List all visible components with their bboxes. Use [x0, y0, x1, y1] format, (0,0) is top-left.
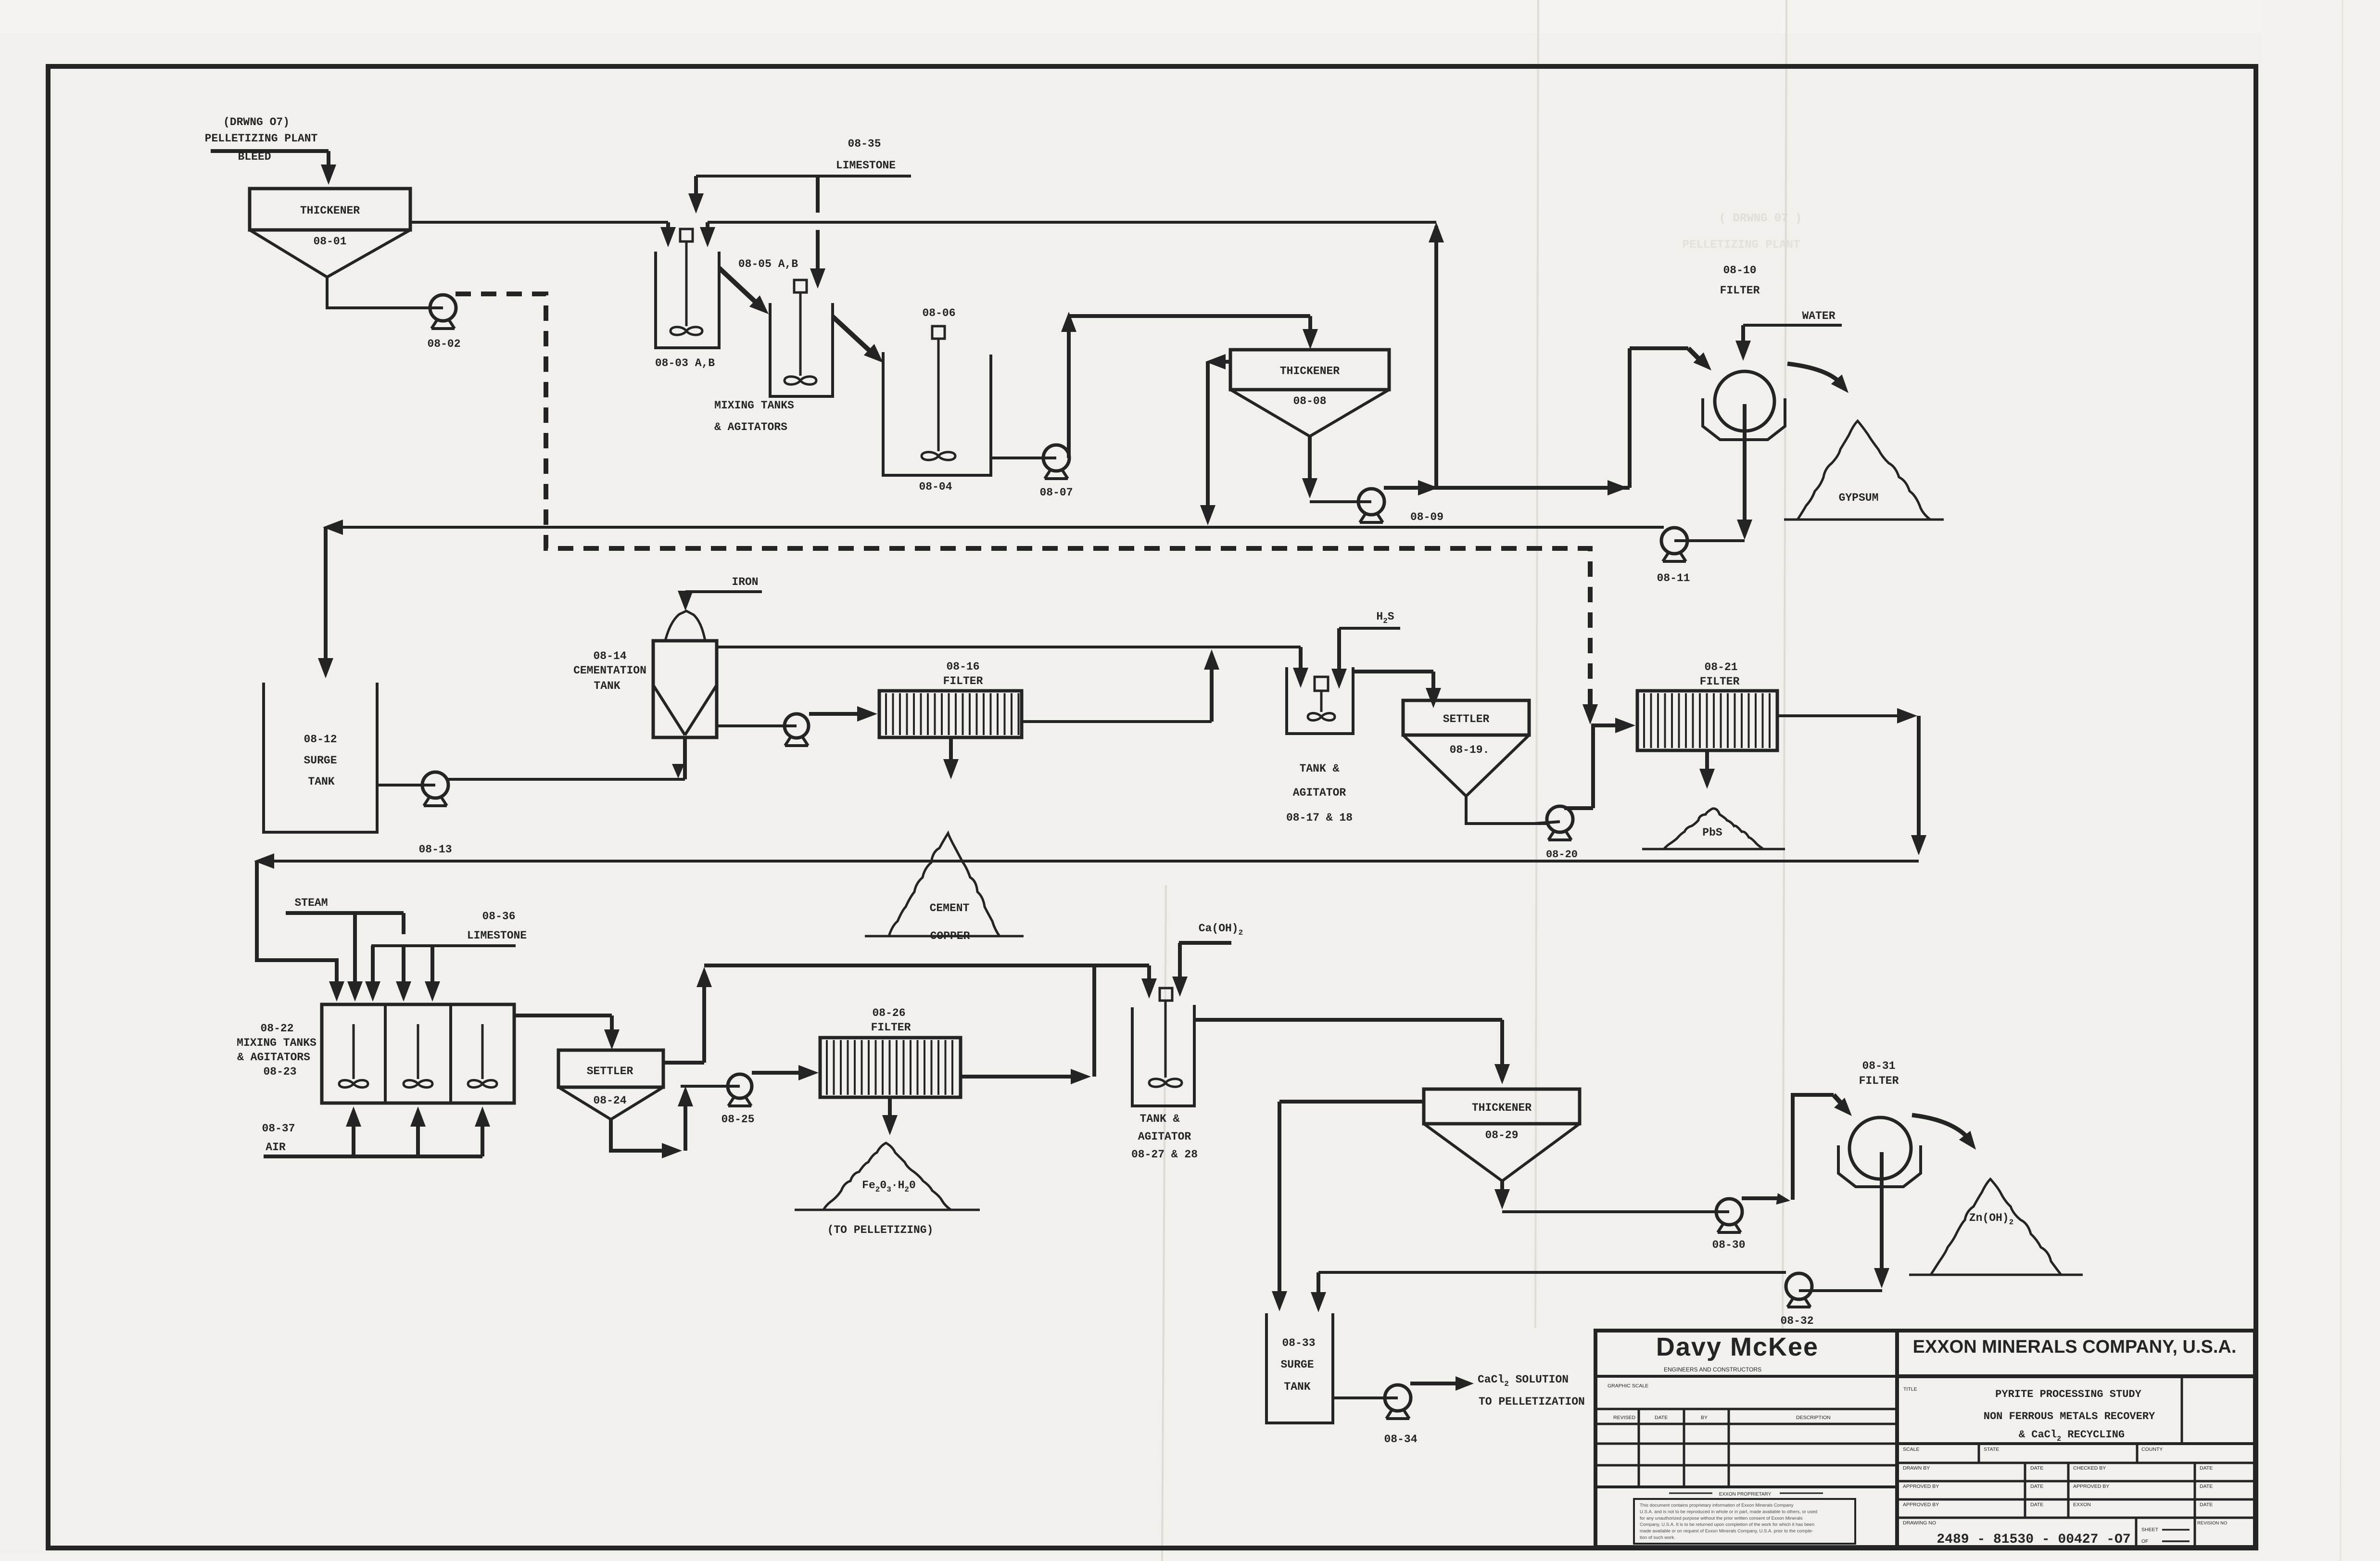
label CaCl2 solution to pelletization: [1478, 1373, 1585, 1408]
svg-text:EXXON: EXXON: [2073, 1502, 2091, 1508]
agitator 08-06 of tank 08-04: [922, 326, 955, 460]
line: pump 08-15 discharge into filter 08-16: [809, 706, 877, 722]
svg-text:08-17 & 18: 08-17 & 18: [1286, 812, 1353, 824]
svg-text:08-34: 08-34: [1384, 1433, 1417, 1446]
label PbS: [1702, 826, 1722, 839]
svg-text:PELLETIZING PLANT: PELLETIZING PLANT: [1683, 239, 1800, 252]
svg-text:08-03 A,B: 08-03 A,B: [655, 357, 715, 369]
svg-text:made available or on request o: made available or on request of Exxon Mi…: [1640, 1529, 1813, 1534]
arrow: tank 08-03 overflow to tank 08-05: [719, 268, 769, 314]
line: pump 08-20 discharge riser to filter 08-21: [1564, 718, 1635, 808]
line: steam branch to tank 1: [347, 913, 363, 1002]
svg-text:EXXON PROPRIETARY: EXXON PROPRIETARY: [1719, 1492, 1772, 1497]
mixing tank 08-03 A,B: [656, 252, 719, 348]
line: H2S feed into tank 08-17: [1331, 628, 1400, 689]
line: settler 08-24 underflow to pump 08-25: [611, 1086, 729, 1158]
label 08-13: [418, 843, 452, 856]
svg-text:THICKENER: THICKENER: [1472, 1102, 1532, 1114]
label Ca(OH)2 feed: [1199, 922, 1243, 937]
svg-text:AGITATOR: AGITATOR: [1138, 1130, 1191, 1143]
mixing tank 08-04: [883, 352, 991, 475]
svg-text:SURGE: SURGE: [304, 754, 337, 767]
agitator of tank 08-27: [1149, 988, 1182, 1087]
svg-text:DRAWING NO: DRAWING NO: [1903, 1520, 1936, 1526]
svg-text:for any unauthorized purpose w: for any unauthorized purpose without the…: [1640, 1516, 1803, 1521]
svg-text:FILTER: FILTER: [1859, 1075, 1899, 1087]
svg-text:08-31: 08-31: [1862, 1060, 1895, 1072]
svg-text:08-21: 08-21: [1704, 661, 1737, 673]
svg-text:08-36: 08-36: [482, 910, 515, 923]
svg-text:(TO PELLETIZING): (TO PELLETIZING): [827, 1224, 934, 1236]
line: mixing tanks outlet to settler 08-24: [514, 1015, 620, 1050]
svg-text:SCALE: SCALE: [1903, 1447, 1919, 1452]
svg-text:STATE: STATE: [1984, 1447, 1999, 1452]
label 08-06: [922, 307, 955, 319]
rotary drum filter 08-10: [1703, 371, 1785, 440]
label tank & agitator 08-27 & 28: [1131, 1113, 1198, 1161]
svg-text:TITLE: TITLE: [1903, 1386, 1917, 1392]
svg-text:08-11: 08-11: [1657, 572, 1690, 584]
line: pump 08-25 discharge into filter 08-26: [752, 1065, 819, 1080]
svg-text:08-32: 08-32: [1780, 1315, 1813, 1327]
line: pump 08-32 discharge to surge tank 08-33: [1311, 1272, 1786, 1312]
svg-text:CEMENT: CEMENT: [930, 902, 970, 914]
svg-text:08-07: 08-07: [1039, 486, 1073, 499]
agitator of tank 08-17: [1308, 677, 1335, 721]
line: steam header: [286, 913, 404, 934]
line: iron feed into cementation tank: [678, 591, 762, 611]
mixing tanks 08-22 08-23: [322, 1004, 514, 1103]
label 08-22 mixing tanks & agitators 08-23: [237, 1022, 316, 1078]
line: bleed feed into thickener 08-01: [211, 151, 336, 185]
svg-text:08-01: 08-01: [313, 235, 346, 248]
svg-text:DATE: DATE: [2030, 1484, 2043, 1489]
label 08-32: [1780, 1315, 1813, 1327]
mixing tank 08-05 A,B: [770, 303, 833, 396]
svg-text:STEAM: STEAM: [294, 897, 328, 909]
svg-text:08-27 & 28: 08-27 & 28: [1131, 1148, 1198, 1161]
line: long return line to mixing tanks 08-22: [254, 853, 1919, 1002]
line: filter 08-21 filtrate to return line: [1777, 708, 1926, 855]
label 08-11: [1657, 572, 1690, 584]
svg-text:DATE: DATE: [2030, 1502, 2043, 1508]
line: limestone 08-35 header: [696, 175, 911, 178]
label 08-05 A,B: [738, 258, 798, 270]
svg-text:TANK: TANK: [1284, 1381, 1310, 1393]
svg-text:2489 - 81530 - 00427 -O7: 2489 - 81530 - 00427 -O7: [1937, 1532, 2130, 1547]
svg-text:LIMESTONE: LIMESTONE: [836, 159, 896, 172]
pump 08-20: [1534, 806, 1573, 840]
label 08-09: [1410, 511, 1443, 523]
svg-text:AGITATOR: AGITATOR: [1293, 787, 1346, 799]
svg-text:08-20: 08-20: [1546, 849, 1578, 861]
line: cementation tank outlet to pump 08-15: [717, 724, 785, 727]
svg-text:& AGITATORS: & AGITATORS: [714, 421, 787, 433]
agitator 2 of 08-22: [404, 1024, 432, 1088]
dashed line: pump 08-02 bleed to filter 08-21 inlet: [456, 294, 1598, 724]
svg-text:DATE: DATE: [2200, 1465, 2213, 1471]
label 08-21 filter: [1700, 661, 1740, 688]
line: pump 08-30 discharge to filter 08-31: [1742, 1095, 1852, 1205]
svg-text:08-12: 08-12: [304, 733, 337, 746]
pump 08-32: [1786, 1273, 1824, 1307]
agitator 3 of 08-22: [468, 1024, 497, 1088]
svg-text:FILTER: FILTER: [943, 675, 983, 687]
line: pump 08-09 discharge to filter 08-10: [1384, 348, 1711, 495]
line: pump 08-34 discharge to pelletization: [1410, 1376, 1474, 1391]
svg-text:GYPSUM: GYPSUM: [1839, 492, 1879, 504]
line: limestone branch to tank 2: [425, 946, 440, 1002]
svg-text:08-24: 08-24: [593, 1094, 626, 1107]
PbS pile: [1642, 809, 1785, 849]
line: steam branch to tank 2: [396, 946, 411, 1002]
line: transfer line to tank 08-27: [704, 965, 1157, 999]
svg-text:BY: BY: [1701, 1415, 1708, 1421]
svg-text:THICKENER: THICKENER: [1280, 365, 1340, 378]
svg-text:08-25: 08-25: [721, 1113, 754, 1126]
thickener 08-29: [1424, 1089, 1580, 1181]
line: thickener 08-01 underflow to pump 08-02: [327, 277, 431, 308]
pump 08-13: [377, 772, 448, 806]
agitator of tank 08-05: [785, 280, 816, 384]
svg-text:FILTER: FILTER: [1700, 675, 1740, 688]
svg-text:DATE: DATE: [2200, 1502, 2213, 1508]
arrow: filter 08-31 cake to Zn(OH)2 pile: [1912, 1115, 1976, 1150]
svg-text:DATE: DATE: [2030, 1465, 2043, 1471]
line: filter 08-16 filtrate riser: [1022, 649, 1219, 722]
svg-text:REVISED: REVISED: [1613, 1415, 1636, 1421]
svg-text:PYRITE PROCESSING STUDY: PYRITE PROCESSING STUDY: [1995, 1388, 2141, 1400]
label 08-30: [1712, 1239, 1745, 1251]
svg-text:IRON: IRON: [732, 576, 758, 588]
line: Ca(OH)2 feed into tank 08-27: [1172, 943, 1231, 997]
label to pelletizing: [827, 1224, 934, 1236]
label 08-34: [1384, 1433, 1417, 1446]
svg-text:WATER: WATER: [1802, 310, 1835, 322]
svg-text:08-22: 08-22: [260, 1022, 293, 1035]
svg-text:08-06: 08-06: [922, 307, 955, 319]
pump 08-15: [774, 714, 809, 746]
line: limestone branch to tank 08-03: [688, 176, 704, 214]
label 08-14 cementation tank: [573, 650, 646, 692]
line: thickener 08-29 overflow to surge tank 08-33: [1272, 1102, 1424, 1311]
svg-text:APPROVED BY: APPROVED BY: [1903, 1484, 1939, 1489]
tank 08-27 & 28: [1132, 1005, 1194, 1106]
svg-text:Company, U.S.A. It is to be re: Company, U.S.A. It is to be returned upo…: [1640, 1522, 1814, 1527]
gypsum pile: [1784, 421, 1944, 520]
svg-text:08-23: 08-23: [263, 1066, 296, 1078]
line: filter 08-26 filtrate riser: [961, 967, 1094, 1084]
svg-text:ENGINEERS AND CONSTRUCTORS: ENGINEERS AND CONSTRUCTORS: [1664, 1366, 1761, 1373]
svg-text:THICKENER: THICKENER: [300, 204, 360, 217]
pump 08-25: [717, 1074, 752, 1106]
svg-text:CHECKED BY: CHECKED BY: [2073, 1465, 2106, 1471]
rotary drum filter 08-31: [1838, 1117, 1921, 1187]
line: thickener 08-29 underflow to pump 08-30: [1494, 1181, 1718, 1212]
svg-text:DATE: DATE: [1655, 1415, 1668, 1421]
svg-text:08-35: 08-35: [848, 138, 881, 150]
svg-text:PELLETIZING PLANT: PELLETIZING PLANT: [205, 132, 318, 145]
svg-text:08-13: 08-13: [418, 843, 452, 856]
svg-text:SETTLER: SETTLER: [1443, 713, 1490, 725]
svg-text:TO PELLETIZATION: TO PELLETIZATION: [1479, 1396, 1585, 1408]
line: water feed to filter 08-10: [1735, 325, 1842, 361]
line: air sparge to tank 1: [346, 1106, 361, 1156]
iron oxide pile: [795, 1143, 980, 1210]
label 08-35 limestone: [836, 138, 896, 172]
label gypsum: [1839, 492, 1879, 504]
filter 08-21: [1637, 691, 1777, 750]
label 08-37 air: [262, 1122, 295, 1154]
label 08-03 A,B: [655, 357, 715, 369]
label 08-16 filter: [943, 660, 983, 687]
svg-text:CEMENTATION: CEMENTATION: [573, 664, 646, 677]
thickener 08-08: [1230, 350, 1389, 436]
fold creases: [1162, 0, 2342, 1561]
filter 08-26: [820, 1038, 961, 1097]
svg-text:( DRWNG 07 ): ( DRWNG 07 ): [1719, 212, 1802, 225]
label: pelletizing plant bleed source: [205, 116, 318, 163]
settler 08-24: [558, 1050, 663, 1119]
svg-text:FILTER: FILTER: [1720, 284, 1760, 297]
line: filter 08-31 filtrate down to pump 08-32: [1812, 1152, 1889, 1291]
line: settler 08-19 underflow to pump 08-20: [1466, 796, 1548, 824]
line: cementation tank overflow to tank 08-17: [717, 647, 1308, 688]
label 08-25: [721, 1113, 754, 1126]
svg-text:tion of such work.: tion of such work.: [1640, 1535, 1675, 1540]
line: riser from pump 08-09 discharge to recycle line: [1429, 222, 1444, 488]
svg-text:& AGITATORS: & AGITATORS: [237, 1051, 310, 1064]
agitator of tank 08-03: [671, 229, 702, 335]
pump 08-11: [1661, 528, 1745, 561]
arrow: tank 08-05 overflow to tank 08-04: [833, 317, 883, 363]
svg-text:OF: OF: [2141, 1538, 2149, 1544]
svg-text:DRAWN BY: DRAWN BY: [1903, 1465, 1930, 1471]
line: filter 08-10 filtrate down to pump 08-11: [1737, 404, 1752, 540]
label 08-12 surge tank: [304, 733, 337, 788]
svg-text:DATE: DATE: [2200, 1484, 2213, 1489]
svg-text:SHEET: SHEET: [2141, 1527, 2159, 1533]
svg-text:08-08: 08-08: [1293, 395, 1326, 407]
line: tank 08-17 outlet to settler 08-19: [1353, 672, 1441, 708]
line: limestone branch to tank 08-05: [810, 176, 825, 289]
svg-text:EXXON MINERALS COMPANY, U.S.A.: EXXON MINERALS COMPANY, U.S.A.: [1913, 1337, 2237, 1357]
line: thickener 08-08 overflow down to surge line: [1200, 354, 1230, 525]
svg-text:COUNTY: COUNTY: [2141, 1447, 2163, 1452]
svg-text:FILTER: FILTER: [871, 1021, 911, 1034]
svg-text:GRAPHIC SCALE: GRAPHIC SCALE: [1608, 1383, 1648, 1389]
line: tank 08-04 outlet to pump 08-07: [991, 457, 1045, 459]
Zn(OH)2 pile: [1909, 1179, 2083, 1275]
label H2S feed: [1376, 610, 1394, 625]
line: air sparge to tank 3: [475, 1106, 490, 1156]
label 08-10 filter: [1720, 264, 1760, 297]
label cement copper: [930, 902, 970, 942]
svg-text:08-19.: 08-19.: [1450, 744, 1490, 756]
label water feed: [1802, 310, 1835, 322]
surge tank 08-33: [1266, 1313, 1333, 1423]
label steam feed: [294, 897, 328, 909]
label 08-20: [1546, 849, 1578, 861]
svg-text:MIXING TANKS: MIXING TANKS: [237, 1037, 316, 1049]
svg-text:08-14: 08-14: [593, 650, 626, 662]
settler 08-19: [1403, 700, 1529, 796]
pump 08-30: [1703, 1199, 1742, 1232]
label 08-02: [427, 338, 460, 350]
line: filter 08-16 cake drop: [943, 737, 959, 779]
line: filter 08-21 cake drop: [1699, 750, 1715, 789]
svg-text:TANK: TANK: [594, 680, 620, 692]
svg-text:TANK: TANK: [308, 775, 334, 788]
svg-text:SURGE: SURGE: [1280, 1358, 1314, 1371]
label tank & agitator 08-17 & 18: [1286, 762, 1353, 824]
thickener 08-01: [250, 189, 410, 277]
line: thickener 08-01 overflow to mixing tank 08-03: [410, 222, 676, 247]
svg-text:AIR: AIR: [266, 1141, 286, 1154]
svg-text:COPPER: COPPER: [930, 930, 970, 942]
svg-text:TANK &: TANK &: [1300, 762, 1340, 775]
pump 08-02: [420, 295, 456, 329]
title block: [1595, 1331, 2255, 1547]
svg-text:08-30: 08-30: [1712, 1239, 1745, 1251]
svg-text:PbS: PbS: [1702, 826, 1722, 839]
line: air header 08-37: [264, 1155, 482, 1158]
svg-text:U.S.A. and is not to be reprod: U.S.A. and is not to be reproduced in wh…: [1640, 1509, 1817, 1514]
svg-text:08-02: 08-02: [427, 338, 460, 350]
svg-text:TANK &: TANK &: [1140, 1113, 1180, 1125]
label 08-31 filter: [1859, 1060, 1899, 1087]
svg-text:NON FERROUS METALS RECOVERY: NON FERROUS METALS RECOVERY: [1984, 1410, 2155, 1422]
line: filter 08-26 cake drop: [882, 1097, 898, 1135]
label iron feed: [732, 576, 758, 588]
svg-text:08-04: 08-04: [919, 481, 952, 493]
svg-text:08-33: 08-33: [1282, 1337, 1315, 1349]
ghost offset print: [1683, 212, 1802, 252]
line: pump 08-07 discharge to thickener 08-08: [1061, 312, 1318, 458]
svg-text:(DRWNG O7): (DRWNG O7): [223, 116, 290, 128]
cement copper pile: [865, 833, 1024, 936]
filter 08-16: [879, 691, 1022, 737]
label 08-07: [1039, 486, 1073, 499]
svg-text:This document contains proprie: This document contains proprietary infor…: [1640, 1503, 1794, 1508]
svg-text:08-10: 08-10: [1723, 264, 1756, 277]
label Fe2O3.H2O: [862, 1179, 916, 1194]
pump 08-07: [1034, 445, 1069, 479]
line: recycle return into mixing tank 08-03: [700, 222, 1436, 247]
label 08-36 limestone: [467, 910, 527, 942]
label 08-26 filter: [871, 1007, 911, 1034]
label 08-33 surge tank: [1280, 1337, 1315, 1393]
tank 08-17 & 18: [1287, 667, 1353, 734]
cementation tank 08-14: [653, 611, 717, 737]
line: filtrate return to surge tank 08-12: [318, 520, 1664, 678]
svg-text:APPROVED BY: APPROVED BY: [2073, 1484, 2109, 1489]
line: thickener 08-08 underflow to pump 08-09: [1302, 436, 1360, 502]
agitator 1 of 08-22: [339, 1024, 368, 1088]
arrow: filter 08-10 cake to gypsum pile: [1787, 364, 1848, 393]
line: limestone 08-36 header: [371, 944, 516, 947]
svg-text:APPROVED BY: APPROVED BY: [1903, 1502, 1939, 1508]
svg-text:08-16: 08-16: [946, 660, 979, 673]
svg-text:MIXING TANKS: MIXING TANKS: [714, 399, 794, 412]
label mixing tanks & agitators: [714, 399, 794, 433]
svg-text:08-05 A,B: 08-05 A,B: [738, 258, 798, 270]
svg-text:REVISION NO: REVISION NO: [2197, 1521, 2227, 1526]
line: air sparge to tank 2: [410, 1106, 426, 1156]
svg-text:08-37: 08-37: [262, 1122, 295, 1135]
line: pump 08-13 discharge to cementation tank 08-14: [448, 737, 685, 779]
svg-text:LIMESTONE: LIMESTONE: [467, 929, 527, 942]
svg-text:08-26: 08-26: [872, 1007, 905, 1019]
pump 08-34: [1333, 1385, 1411, 1419]
svg-text:Davy McKee: Davy McKee: [1656, 1333, 1819, 1361]
line: settler 08-24 overflow riser: [663, 967, 712, 1063]
pump 08-09: [1347, 489, 1384, 522]
svg-text:DESCRIPTION: DESCRIPTION: [1796, 1415, 1831, 1421]
svg-text:08-09: 08-09: [1410, 511, 1443, 523]
svg-text:SETTLER: SETTLER: [587, 1065, 633, 1078]
line: limestone branch to tank 1: [365, 946, 380, 1002]
label Zn(OH)2: [1969, 1212, 2013, 1227]
label 08-04: [919, 481, 952, 493]
surge tank 08-12: [264, 683, 377, 832]
svg-text:08-29: 08-29: [1485, 1129, 1518, 1142]
line: tank 08-27 outlet to thickener 08-29: [1194, 1020, 1510, 1084]
